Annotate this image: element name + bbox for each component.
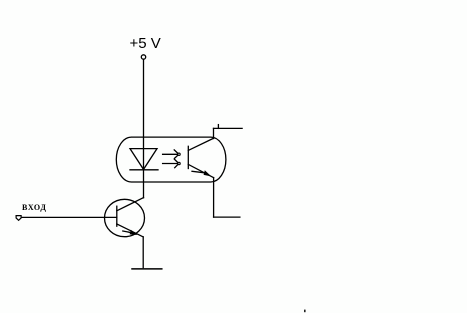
LED D1 triangle (anode top) [130, 149, 157, 170]
svg-text:+5 V: +5 V [130, 35, 161, 52]
phototransistor Q2 emitter lead [188, 164, 213, 177]
light arrow 2 shaft [163, 163, 178, 165]
wire: Q2 emitter down [213, 178, 215, 218]
light arrow 1 shaft [163, 153, 178, 155]
transistor Q1 emitter arrowhead [130, 230, 138, 235]
svg-text:ВХОД: ВХОД [22, 203, 47, 212]
light arrow 1 head [174, 150, 178, 159]
wire: collector output horizontal [214, 127, 243, 129]
transistor Q1 base bar [116, 206, 118, 226]
ground [132, 268, 162, 270]
phototransistor Q2 collector lead [188, 138, 213, 150]
terminal +5V supply pin [141, 55, 145, 59]
phototransistor Q2 emitter barb [192, 171, 206, 173]
light arrow 2 head [174, 159, 178, 168]
wire: input to Q1 base [21, 216, 116, 218]
wire: Q2 collector up [213, 128, 215, 138]
phototransistor Q2 base bar [187, 146, 189, 168]
light arrow 1 tip ring [178, 153, 180, 155]
light arrow 2 tip ring [178, 162, 180, 164]
wire: collector stub tick [217, 125, 219, 129]
transistor Q1 emitter barb [123, 231, 132, 233]
transistor Q1 collector lead [117, 198, 144, 211]
LED D1 cathode bar [130, 169, 158, 171]
optocoupler U1 package outline [116, 137, 226, 182]
transistor Q1 emitter lead [117, 224, 143, 237]
phototransistor Q2 emitter arrowhead [204, 170, 212, 176]
wire: emitter output horizontal [214, 216, 240, 218]
wire: +5V rail down to LED anode and Q1 collector node [143, 59, 145, 197]
terminal input pin [16, 216, 21, 221]
transistor Q1 circle [105, 199, 145, 236]
speck artifact [304, 310, 306, 313]
wire: Q1 emitter down to ground [142, 237, 144, 268]
